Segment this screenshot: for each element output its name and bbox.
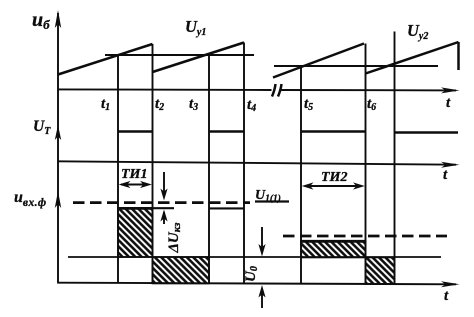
U_T pulse top 2 (209, 130, 244, 133)
hatched rect right 1 (301, 242, 366, 258)
hatched rect left 2 (153, 257, 210, 284)
U0 lower arrow (261, 290, 263, 308)
svg-text:ТИ1: ТИ1 (121, 167, 147, 182)
U_T pulse top 1 (118, 130, 153, 133)
U0 upper arrow (261, 227, 263, 252)
dU_kz lower arrow (163, 212, 165, 224)
U_T pulse top 4 (395, 131, 459, 134)
grid vertical t4 (with sawtooth drop) (243, 43, 245, 284)
row2 axis arrowhead (441, 162, 460, 168)
level extension after t2 (153, 207, 175, 209)
hatched rect left 1 (118, 209, 153, 258)
grid vertical t1 (117, 55, 119, 283)
arrowhead u_vx.f axis (55, 191, 61, 208)
thick top edge of right rect 1 (300, 240, 367, 243)
row1 axis arrowhead (441, 87, 460, 93)
dashed level U1(1) left (73, 201, 250, 204)
TI2 dimension double arrow (305, 185, 361, 187)
row3 axis arrowhead (441, 281, 460, 287)
hatched rect right 2 (366, 258, 395, 285)
arrowhead top of u axis (55, 10, 61, 28)
grid vertical t3 (208, 54, 210, 284)
U0 level line (68, 256, 441, 258)
sawtooth U_y2 ramp1 (273, 44, 364, 78)
high level t3-t4 (209, 207, 244, 209)
U_T pulse top 3 (301, 130, 366, 133)
arrowhead U_T axis (55, 125, 61, 140)
axis break marks (272, 84, 276, 97)
row1 time axis (right of break) (281, 89, 456, 91)
row3 time axis (58, 283, 456, 285)
vertical voltage axis (common left axis) (57, 13, 59, 284)
sawtooth U_y2 ramp2 (366, 42, 459, 74)
TI1 dimension double arrow (121, 184, 149, 186)
svg-text:ТИ2: ТИ2 (321, 170, 347, 185)
thick top edge of left rect 1 (117, 207, 154, 210)
dU_kz upper arrow (163, 172, 165, 196)
grid vertical t5 (300, 66, 302, 284)
sawtooth U_y2 end bar (457, 42, 460, 70)
grid vertical t6 (with sawtooth drop) (365, 44, 367, 285)
right threshold level line (274, 65, 438, 67)
sawtooth U_y1 ramp2 (153, 43, 245, 73)
row1 time axis (left of break) (58, 88, 272, 91)
row2 time axis (58, 161, 456, 164)
sawtooth U_y1 ramp1 (58, 44, 153, 75)
U1(1) label underline (255, 200, 289, 202)
left threshold level line (105, 54, 254, 56)
grid vertical after t6 (394, 32, 396, 285)
grid vertical t2 (with sawtooth drop) (152, 44, 154, 283)
dashed level right (283, 235, 447, 238)
